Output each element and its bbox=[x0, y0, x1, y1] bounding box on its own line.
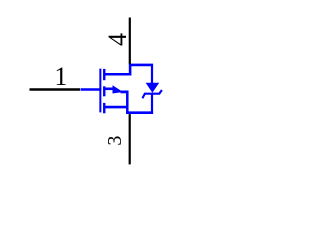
channel dash middle bbox=[103, 86, 105, 96]
wire source/bulk bottom rail bbox=[126, 111, 153, 114]
diode cathode bar (zener style) bbox=[142, 90, 162, 98]
wire bulk stub bbox=[104, 88, 113, 91]
diode cathode lead bbox=[151, 94, 153, 113]
body diode D (triangle) bbox=[146, 83, 160, 93]
wire source stub bbox=[104, 106, 128, 109]
wire gate lead (blue) bbox=[81, 88, 102, 91]
wire pin 1 lead (black) bbox=[30, 88, 81, 91]
svg-text:4: 4 bbox=[103, 33, 132, 46]
svg-text:3: 3 bbox=[104, 136, 126, 146]
gate line G bbox=[99, 69, 101, 113]
pin 3 lead (black) bbox=[129, 114, 131, 164]
wire drain stub bbox=[104, 65, 153, 74]
diode anode lead bbox=[151, 65, 153, 84]
svg-text:1: 1 bbox=[54, 62, 67, 91]
channel dash top bbox=[103, 69, 105, 80]
wire bulk arrow to vertical bbox=[121, 91, 129, 94]
pin 4 lead (black) bbox=[129, 18, 131, 65]
channel dash bottom bbox=[103, 103, 105, 113]
wire bulk vertical bbox=[126, 91, 129, 113]
bulk arrow (substrate) bbox=[113, 85, 124, 93]
